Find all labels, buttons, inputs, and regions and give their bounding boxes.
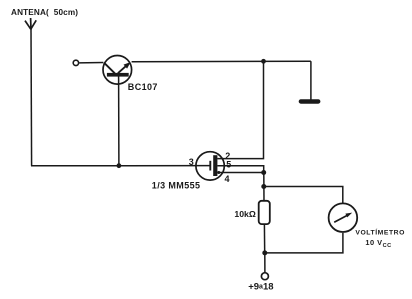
node junction collector/wire — [117, 163, 122, 168]
wire to voltmeter bottom — [265, 233, 343, 253]
resistor R1 — [259, 201, 270, 224]
svg-text:VOLTÍMETRO: VOLTÍMETRO — [355, 228, 405, 237]
wire bottom horizontal to pin 3 — [31, 165, 210, 167]
svg-text:3: 3 — [189, 157, 194, 167]
wire antenna down lead — [30, 29, 33, 166]
wire emitter to right — [132, 60, 311, 63]
node junction emitter/pin2 — [261, 59, 266, 64]
op-amp U1 1/3 MM555 — [196, 152, 224, 180]
antenna ANT1 — [25, 18, 36, 30]
wire to voltmeter top — [264, 187, 343, 204]
node junction voltmeter top branch — [261, 184, 266, 189]
svg-text:BC107: BC107 — [128, 82, 158, 92]
transistor Q1 BC107 — [79, 56, 131, 166]
voltmeter M1 — [329, 203, 358, 232]
terminal +9a18 supply — [261, 273, 268, 280]
node pin4 plate junction — [217, 171, 220, 174]
wire chip node down to resistor — [263, 173, 265, 202]
ground — [299, 99, 321, 104]
svg-text:10 VCC: 10 VCC — [365, 238, 391, 249]
svg-text:4: 4 — [225, 174, 230, 184]
wire pin 5 — [217, 166, 263, 173]
node junction pin4/pin5 — [261, 170, 266, 175]
wire ground drop — [310, 61, 312, 100]
svg-text:10kΩ: 10kΩ — [234, 209, 255, 219]
wire terminal drop — [264, 253, 266, 273]
wire resistor bottom — [263, 224, 265, 253]
node junction voltmeter bottom branch — [262, 250, 267, 255]
svg-text:1/3 MM555: 1/3 MM555 — [152, 180, 201, 190]
svg-text:5: 5 — [226, 160, 231, 170]
svg-text:ANTENA( 50cm): ANTENA( 50cm) — [11, 8, 78, 17]
svg-text:+9a18: +9a18 — [248, 282, 273, 293]
wire pin 4 — [217, 172, 263, 174]
wire pin 2 to emitter node — [217, 61, 263, 158]
terminal base input — [73, 60, 78, 65]
